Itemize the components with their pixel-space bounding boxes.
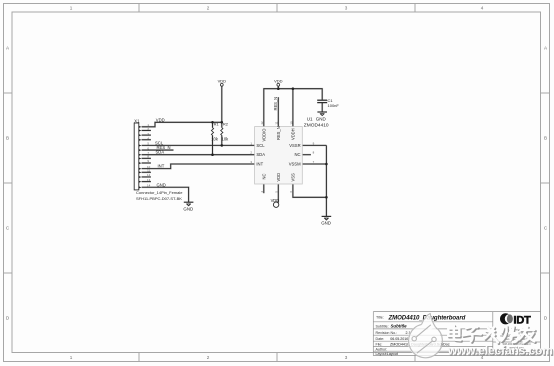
junction VDD symbol / top rail xyxy=(277,87,280,90)
wire VSSM xyxy=(302,163,326,165)
wire connector NC stubs xyxy=(142,129,151,131)
svg-text:GND: GND xyxy=(321,221,331,226)
junction VSS / ground rail xyxy=(325,196,328,199)
svg-text:RES_N: RES_N xyxy=(276,126,281,140)
svg-text:VDD: VDD xyxy=(274,78,283,83)
wire RES_N to pin11 xyxy=(277,97,279,126)
svg-text:VSS: VSS xyxy=(290,173,295,181)
svg-text:D: D xyxy=(6,316,10,321)
svg-text:10: 10 xyxy=(289,121,293,125)
watermark chinese text 电子发烧友 xyxy=(448,325,535,343)
svg-text:VDD: VDD xyxy=(271,198,280,203)
svg-text:U1: U1 xyxy=(307,116,313,121)
svg-text:VDD: VDD xyxy=(218,78,227,83)
svg-text:2: 2 xyxy=(207,355,210,360)
junction R2 top / VDD rail xyxy=(221,121,224,124)
svg-text:10k: 10k xyxy=(211,136,219,141)
resistor R2 xyxy=(221,121,229,141)
svg-text:B: B xyxy=(544,136,547,141)
ground (connector) xyxy=(183,202,193,211)
logo IDT address xyxy=(500,328,533,350)
svg-text:2: 2 xyxy=(207,5,210,10)
svg-text:Subtitle:: Subtitle: xyxy=(376,324,389,328)
wire VSSR xyxy=(302,144,326,146)
svg-text:Revision No.:: Revision No.: xyxy=(376,331,398,335)
svg-text:SDA: SDA xyxy=(256,152,265,157)
wire connector GND xyxy=(142,187,189,202)
svg-text:GND: GND xyxy=(183,207,193,212)
svg-text:C: C xyxy=(6,226,10,231)
svg-text:VDD: VDD xyxy=(276,173,281,182)
IC U1 ZMOD4410 xyxy=(255,116,329,184)
connector pin arrows xyxy=(139,126,142,189)
ground (below C1) xyxy=(316,112,327,121)
svg-text:Subtitle: Subtitle xyxy=(391,324,408,329)
svg-text:A: A xyxy=(6,46,10,51)
svg-text:100nF: 100nF xyxy=(328,103,340,108)
svg-text:SDA: SDA xyxy=(156,150,165,155)
svg-text:X1: X1 xyxy=(134,119,140,124)
svg-text:INT: INT xyxy=(158,164,165,169)
junction R1 / SDA xyxy=(211,153,214,156)
svg-text:11: 11 xyxy=(275,121,279,124)
junction VDDH pin10 / top rail xyxy=(292,87,295,90)
wire NC stub pin8 xyxy=(302,154,311,156)
svg-text:06.05.2016: 06.05.2016 xyxy=(390,337,408,341)
svg-text:www.elecfans.com: www.elecfans.com xyxy=(447,344,553,358)
svg-text:10k: 10k xyxy=(222,136,230,141)
logo IDT xyxy=(500,313,531,326)
svg-text:14: 14 xyxy=(147,184,151,188)
IC pin names bottom (vertical) xyxy=(261,173,295,182)
resistor R1 xyxy=(211,121,219,141)
svg-text:1: 1 xyxy=(70,5,73,10)
svg-text:File:: File: xyxy=(376,343,383,347)
svg-text:Author:: Author: xyxy=(376,347,388,351)
wire VSS pin6 xyxy=(293,184,327,197)
svg-text:8: 8 xyxy=(313,151,315,155)
wire INT xyxy=(142,164,255,169)
svg-text:4: 4 xyxy=(481,5,484,10)
ground (right rail) xyxy=(321,216,331,225)
svg-text:R2: R2 xyxy=(223,121,229,126)
wire RES_N stub xyxy=(142,149,174,151)
svg-text:C: C xyxy=(544,226,548,231)
svg-text:B: B xyxy=(6,136,9,141)
junction R2 / SCL xyxy=(221,144,224,147)
wire halo underlay (soft scan look) xyxy=(142,86,327,216)
watermark www.elecfans.com xyxy=(447,344,554,359)
svg-text:VSSM: VSSM xyxy=(289,162,301,167)
svg-text:SFH11-PBPC-D07-ST-BK: SFH11-PBPC-D07-ST-BK xyxy=(136,196,182,201)
svg-text:ZMOD4410: ZMOD4410 xyxy=(304,122,329,128)
connector pin numbers xyxy=(147,123,151,188)
svg-text:3: 3 xyxy=(345,5,348,10)
IC pin numbers xyxy=(250,121,314,193)
svg-text:3: 3 xyxy=(345,355,348,360)
wire VDD top rail xyxy=(264,89,322,127)
svg-text:Layout: Layout xyxy=(387,352,398,356)
wire C1 bottom xyxy=(321,103,323,112)
svg-text:Date:: Date: xyxy=(376,337,385,341)
svg-text:RES_N: RES_N xyxy=(273,97,278,111)
connector X1 body xyxy=(134,123,139,190)
power VDD (down, at pin5) xyxy=(271,198,280,208)
svg-text:NC: NC xyxy=(261,174,266,180)
wire right vertical to GND xyxy=(325,145,327,216)
svg-text:R1: R1 xyxy=(214,121,220,126)
svg-text:D: D xyxy=(544,316,548,321)
svg-text:GND: GND xyxy=(157,182,166,187)
svg-text:VSSR: VSSR xyxy=(289,143,300,148)
svg-text:GND: GND xyxy=(316,116,327,121)
svg-text:Layout:: Layout: xyxy=(376,352,388,356)
capacitor C1 xyxy=(317,98,339,108)
svg-text:A: A xyxy=(544,46,548,51)
svg-text:VDDIO: VDDIO xyxy=(261,129,266,142)
wire VDDH pin10 xyxy=(292,89,294,127)
power VDD (left, above resistors) xyxy=(218,78,227,86)
svg-text:INT: INT xyxy=(256,162,263,167)
svg-text:SCL: SCL xyxy=(256,143,265,148)
wire R2 bottom to SCL xyxy=(221,135,223,145)
IC pin names top (vertical) xyxy=(261,126,295,141)
wire SDA xyxy=(142,154,255,156)
junction R1 top / VDD rail xyxy=(211,121,214,124)
svg-text:13: 13 xyxy=(147,178,151,182)
watermark circle logo xyxy=(408,314,443,358)
svg-text:NC: NC xyxy=(295,152,301,157)
svg-text:1: 1 xyxy=(70,355,73,360)
wire NC stub pin4 xyxy=(263,184,265,193)
svg-text:Connector_14Pin_Female: Connector_14Pin_Female xyxy=(136,190,183,195)
svg-text:IDT: IDT xyxy=(513,315,531,327)
wire VDD from connector pin1 xyxy=(142,122,222,127)
svg-text:VDDH: VDDH xyxy=(290,128,295,140)
junction VSSM / ground rail xyxy=(325,163,328,166)
svg-text:VDD: VDD xyxy=(156,118,165,123)
IC pin names right xyxy=(289,143,301,167)
svg-text:12: 12 xyxy=(147,173,151,177)
svg-text:11: 11 xyxy=(147,169,150,173)
wire R1 top xyxy=(212,122,214,127)
wire R1 bottom to SDA xyxy=(212,135,214,154)
wire VDD symbol stem xyxy=(277,86,279,88)
wire VDD pin5 down xyxy=(277,184,279,203)
power VDD (top rail) xyxy=(274,78,283,86)
wire VDD vertical stem to R2 xyxy=(221,86,223,127)
svg-text:Title:: Title: xyxy=(376,316,384,320)
svg-text:12: 12 xyxy=(260,121,264,125)
wire SCL xyxy=(142,144,255,146)
IC pin names left xyxy=(256,143,265,167)
